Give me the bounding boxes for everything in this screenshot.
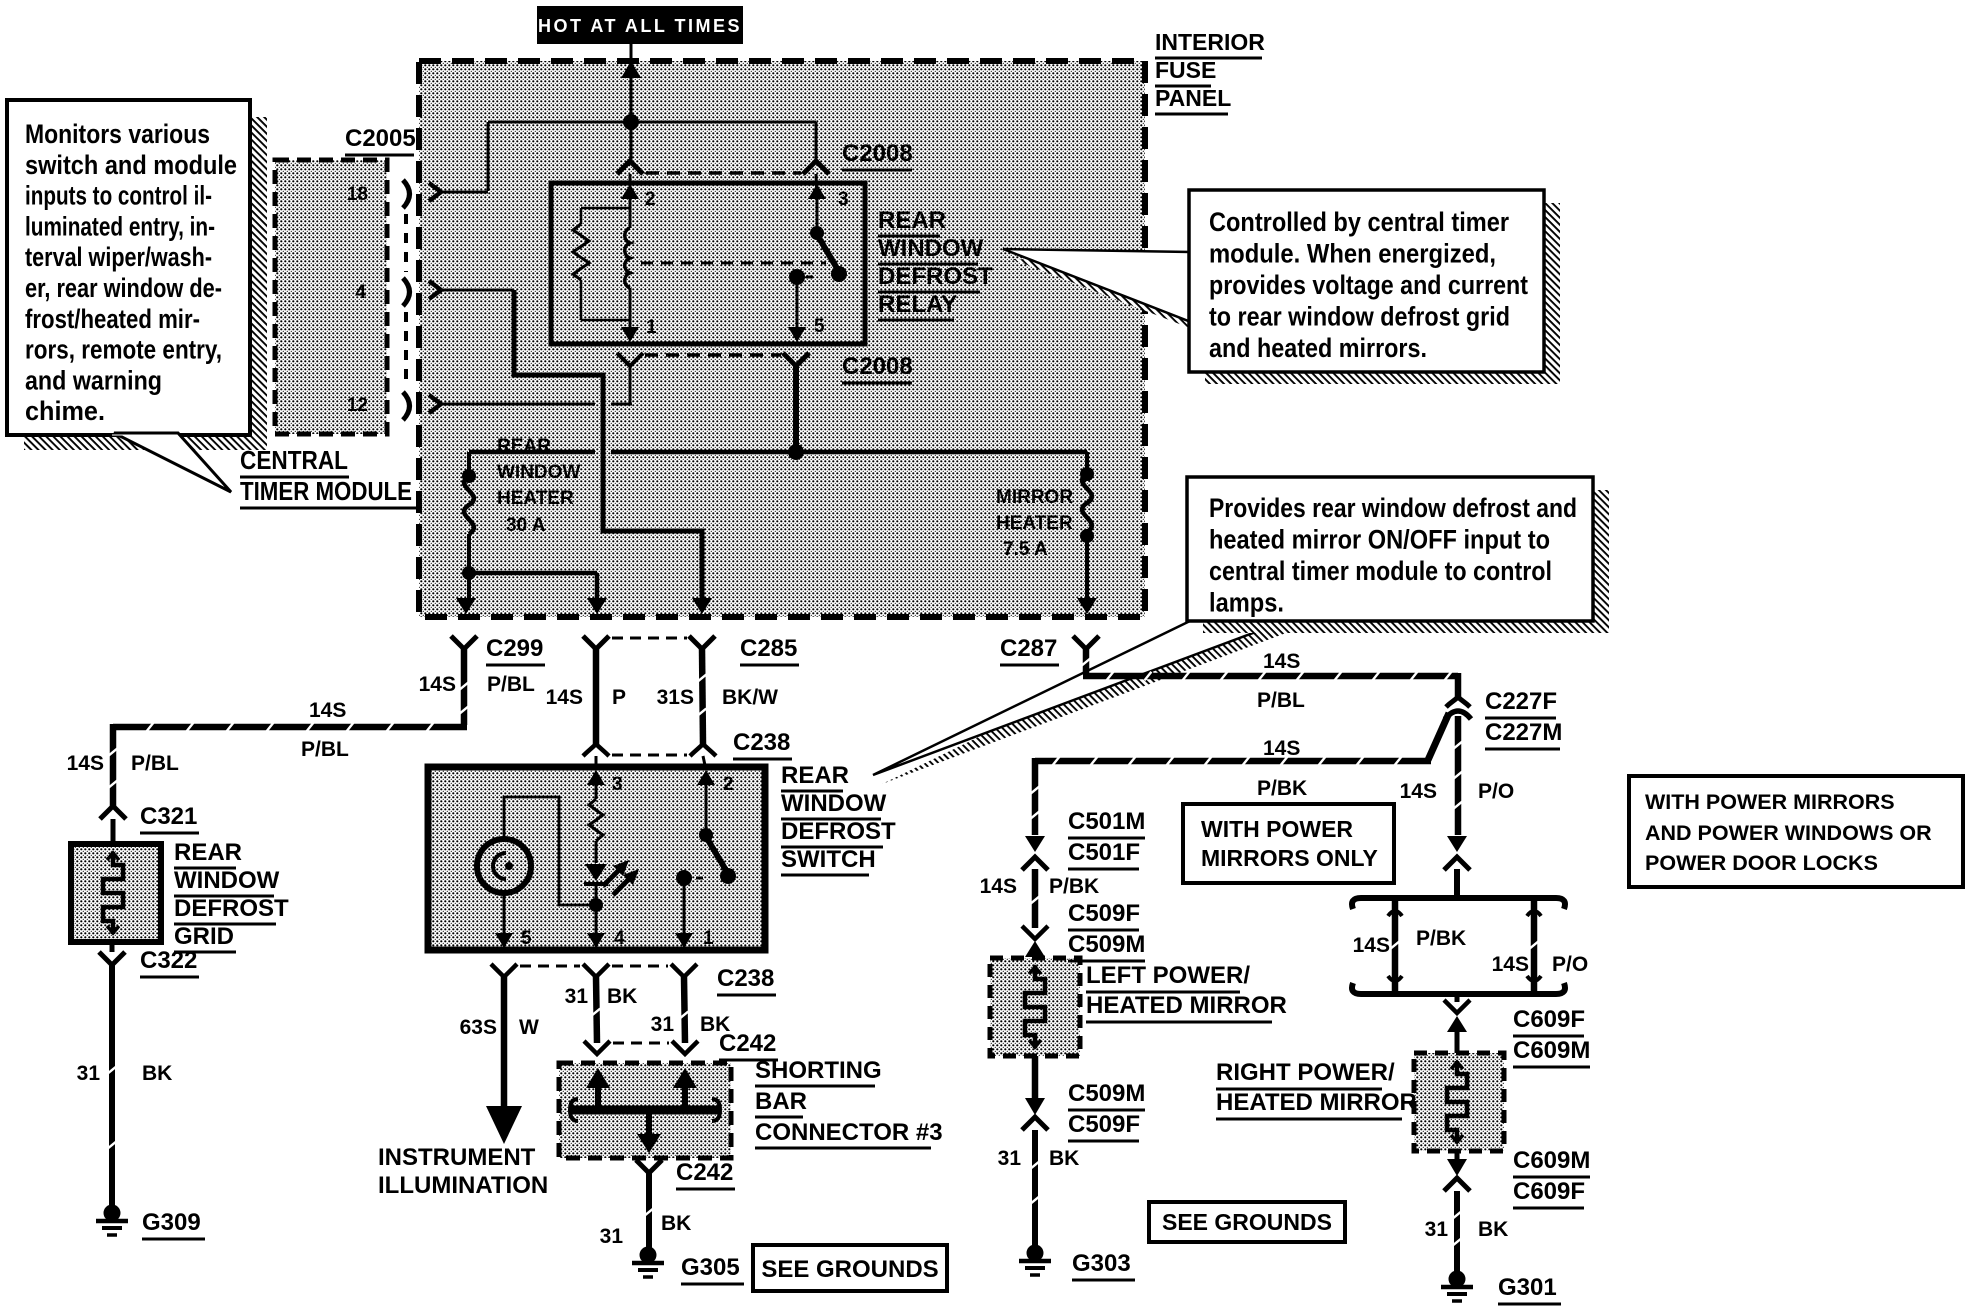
fuse - mirror heater 7.5A bbox=[1085, 452, 1089, 472]
svg-text:1: 1 bbox=[703, 928, 714, 949]
connector C285 left half (14S P) bbox=[583, 636, 609, 649]
svg-text:chime.: chime. bbox=[25, 396, 105, 426]
callout - left note shadow bbox=[250, 117, 267, 450]
arrow - 31S wire exits fuse panel to C285 bbox=[692, 598, 712, 614]
relay - rear window defrost relay box bbox=[551, 183, 865, 344]
svg-text:C238: C238 bbox=[733, 729, 790, 756]
svg-text:2: 2 bbox=[645, 189, 656, 210]
connector C509F / C509M bbox=[1022, 926, 1048, 939]
svg-text:REAR: REAR bbox=[878, 207, 946, 234]
svg-text:TIMER MODULE: TIMER MODULE bbox=[240, 476, 412, 506]
svg-text:DEFROST: DEFROST bbox=[878, 263, 993, 290]
svg-text:BK: BK bbox=[142, 1062, 172, 1085]
svg-text:C299: C299 bbox=[486, 635, 543, 662]
svg-text:P/BK: P/BK bbox=[1416, 927, 1466, 950]
svg-text:INTERIOR: INTERIOR bbox=[1155, 29, 1265, 55]
splice bracket top bar bbox=[1352, 898, 1565, 909]
wire - 31 BK shorting bar to ground G305 bbox=[646, 1173, 652, 1248]
svg-text:C509F: C509F bbox=[1068, 900, 1140, 927]
svg-text:MIRRORS ONLY: MIRRORS ONLY bbox=[1201, 845, 1378, 871]
switch pin 3 arrow bbox=[587, 770, 605, 785]
node - switch lamp junction bbox=[589, 898, 603, 912]
svg-text:5: 5 bbox=[521, 928, 532, 949]
svg-text:WITH POWER MIRRORS: WITH POWER MIRRORS bbox=[1645, 790, 1895, 814]
svg-text:P/O: P/O bbox=[1478, 780, 1514, 803]
wire - 31 BK left mirror to ground G303 bbox=[1032, 1130, 1038, 1246]
svg-text:14S: 14S bbox=[309, 699, 346, 722]
wire - C238 to switch pin 3 bbox=[595, 756, 598, 770]
svg-text:C287: C287 bbox=[1000, 635, 1057, 662]
connector C2005 pin 18 bracket bbox=[403, 180, 410, 208]
svg-text:14S: 14S bbox=[1400, 780, 1437, 803]
callout B box bbox=[1187, 477, 1593, 621]
svg-text:switch and module: switch and module bbox=[25, 150, 237, 180]
wire - C601 to splice bracket bbox=[1454, 869, 1460, 899]
svg-text:provides voltage and current: provides voltage and current bbox=[1209, 270, 1528, 300]
svg-text:31: 31 bbox=[1425, 1218, 1449, 1241]
svg-text:14S: 14S bbox=[1353, 934, 1390, 957]
wire - B+ distribution to relay pin 3 branch bbox=[631, 121, 816, 124]
arrow - instrument illumination feed (large) bbox=[486, 1106, 522, 1144]
svg-text:1: 1 bbox=[646, 317, 657, 338]
arrow - rear window heater fuse output exits panel at C299 bbox=[456, 598, 476, 614]
connector C322 bbox=[99, 952, 125, 965]
wire - 14S P/BL from C299 to C321 (slashed power wire) bbox=[461, 649, 468, 725]
note box - SEE GROUNDS (left) bbox=[753, 1245, 947, 1291]
relay coil (pin 2 to pin 1) bbox=[629, 199, 632, 228]
wire - 31 BK switch pin 1 to C242 bbox=[684, 977, 685, 1043]
wire - 14S P from C285 to C238 bbox=[593, 649, 600, 744]
svg-text:G301: G301 bbox=[1498, 1274, 1557, 1301]
svg-text:P/O: P/O bbox=[1552, 953, 1588, 976]
svg-text:central timer module to contro: central timer module to control bbox=[1209, 556, 1552, 586]
svg-text:31: 31 bbox=[998, 1147, 1022, 1170]
svg-text:to rear window defrost grid: to rear window defrost grid bbox=[1209, 302, 1510, 332]
relay mechanical linkage dashed line bbox=[641, 262, 826, 265]
svg-text:Controlled by central timer: Controlled by central timer bbox=[1209, 207, 1509, 237]
svg-text:HEATED MIRROR: HEATED MIRROR bbox=[1216, 1089, 1417, 1116]
connector C285 right half (31S BK/W) bbox=[689, 636, 715, 649]
svg-text:2: 2 bbox=[723, 774, 734, 795]
svg-text:P/BL: P/BL bbox=[487, 673, 535, 696]
switch indicator LED diode bbox=[585, 864, 607, 881]
svg-text:63S: 63S bbox=[460, 1016, 497, 1039]
svg-text:LEFT POWER/: LEFT POWER/ bbox=[1086, 962, 1250, 989]
connector C2005 pin 4 bracket bbox=[403, 278, 410, 306]
connector C242 upper dashed link bbox=[613, 1042, 669, 1045]
svg-text:Provides rear window defrost a: Provides rear window defrost and bbox=[1209, 493, 1577, 523]
component - rear window defrost switch box bbox=[428, 767, 765, 950]
svg-text:C609M: C609M bbox=[1513, 1147, 1590, 1174]
callout B pointer wedge bbox=[873, 621, 1285, 775]
component - right power/heated mirror box bbox=[1414, 1053, 1504, 1151]
svg-text:12: 12 bbox=[347, 395, 368, 416]
svg-text:WINDOW: WINDOW bbox=[781, 790, 887, 817]
wire - 14S P/O from C227 to C601 (slashed) bbox=[1455, 716, 1462, 835]
svg-text:C238: C238 bbox=[717, 965, 774, 992]
svg-text:module. When energized,: module. When energized, bbox=[1209, 239, 1496, 269]
svg-text:C609F: C609F bbox=[1513, 1178, 1585, 1205]
callout B pointer shadow bbox=[882, 630, 1294, 784]
relay switch arm bbox=[819, 238, 838, 270]
svg-text:4: 4 bbox=[614, 928, 625, 949]
svg-text:rors, remote entry,: rors, remote entry, bbox=[25, 335, 222, 365]
inline connector - 14S P/BK (bracket left leg) bbox=[1392, 898, 1399, 994]
connector C227F / C227M inline pair bbox=[1446, 697, 1470, 707]
svg-text:14S: 14S bbox=[546, 686, 583, 709]
connector C2008 lower right half (relay pin 5 output) bbox=[783, 353, 809, 366]
svg-text:31: 31 bbox=[77, 1062, 101, 1085]
shorting bar output arrow bbox=[646, 1110, 652, 1136]
component - shorting bar connector #3 box bbox=[559, 1063, 731, 1158]
connector C285 dashed link bbox=[612, 637, 687, 640]
svg-text:HEATED MIRROR: HEATED MIRROR bbox=[1086, 992, 1287, 1019]
arrow - 14S P wire exits panel to C285 bbox=[587, 598, 607, 614]
svg-text:C227F: C227F bbox=[1485, 688, 1557, 715]
ground G309 bbox=[104, 1205, 121, 1222]
ground G301 bbox=[1449, 1271, 1466, 1288]
callout - left note box bbox=[7, 100, 250, 435]
svg-text:GRID: GRID bbox=[174, 923, 234, 950]
relay pin 3 arrow bbox=[816, 174, 817, 199]
svg-text:REAR: REAR bbox=[174, 839, 242, 866]
svg-text:PANEL: PANEL bbox=[1155, 85, 1231, 111]
svg-text:C509M: C509M bbox=[1068, 931, 1145, 958]
connector C2005 body dashes bbox=[404, 214, 408, 272]
svg-text:and heated mirrors.: and heated mirrors. bbox=[1209, 333, 1427, 363]
wire - C2008 lower connector dashed link bbox=[645, 353, 781, 357]
svg-text:P/BK: P/BK bbox=[1257, 777, 1307, 800]
arrow - mirror heater fuse output exits panel at C287 bbox=[1077, 598, 1097, 614]
svg-text:BK: BK bbox=[1478, 1218, 1508, 1241]
wire - CTM pin 4 to defrost switch pin 2 (31S BK/W) bbox=[440, 289, 514, 292]
svg-text:3: 3 bbox=[612, 774, 623, 795]
relay pin 5 wire and arrow bbox=[796, 283, 799, 330]
right mirror heating element bbox=[1447, 1061, 1467, 1143]
svg-text:luminated entry, in-: luminated entry, in- bbox=[25, 211, 215, 241]
wire - relay output C2008 to feed junction bbox=[793, 366, 799, 452]
svg-text:SEE GROUNDS: SEE GROUNDS bbox=[761, 1256, 938, 1283]
ground G305 bbox=[640, 1247, 657, 1264]
connector C2008 upper right half (to relay pin 3) bbox=[803, 161, 829, 174]
svg-text:WINDOW: WINDOW bbox=[497, 462, 580, 483]
wire - 31 BK switch pin 4 to C242 bbox=[596, 977, 597, 1043]
wire - fuse feed rail to mirror heater fuse bbox=[796, 450, 1087, 455]
relay pin 1 arrow bbox=[621, 327, 639, 342]
svg-text:C509F: C509F bbox=[1068, 1111, 1140, 1138]
switch indicator resistor bbox=[589, 799, 603, 841]
connector C2005 pin 18 harness arrow bbox=[429, 183, 441, 201]
svg-text:MIRROR: MIRROR bbox=[996, 487, 1073, 508]
svg-text:3: 3 bbox=[838, 189, 849, 210]
component - rear window defrost grid box bbox=[71, 844, 161, 942]
wire - 31 BK right mirror to ground G301 bbox=[1454, 1191, 1460, 1272]
svg-text:14S: 14S bbox=[980, 875, 1017, 898]
connector C299 bbox=[451, 636, 477, 649]
callout A box bbox=[1189, 190, 1544, 372]
svg-text:31: 31 bbox=[600, 1225, 624, 1248]
svg-text:WITH POWER: WITH POWER bbox=[1201, 816, 1353, 842]
svg-text:REAR: REAR bbox=[781, 762, 849, 789]
svg-text:14S: 14S bbox=[67, 752, 104, 775]
component - left power/heated mirror box bbox=[990, 958, 1080, 1056]
connector C609F / C609M bbox=[1455, 994, 1460, 1002]
arrow - battery feed entering fuse panel bbox=[621, 61, 641, 78]
svg-text:G305: G305 bbox=[681, 1254, 740, 1281]
svg-text:P: P bbox=[612, 686, 626, 709]
wire - 14S P/BK C501 to C509 (slashed) bbox=[1032, 869, 1039, 928]
svg-text:31: 31 bbox=[565, 985, 589, 1008]
wire - fuse feed rail to rear window heater fuse (break at crossing) bbox=[469, 450, 595, 455]
switch pin 2 fixed contact bbox=[705, 799, 708, 832]
splice bracket bottom bar bbox=[1352, 983, 1565, 994]
callout B shadow bbox=[1593, 490, 1609, 633]
switch illumination lamp bbox=[477, 839, 531, 893]
svg-text:C501F: C501F bbox=[1068, 839, 1140, 866]
svg-text:BK: BK bbox=[661, 1212, 691, 1235]
connector C321 bbox=[100, 806, 126, 819]
svg-text:HEATER: HEATER bbox=[497, 488, 574, 509]
svg-text:31: 31 bbox=[651, 1013, 675, 1036]
svg-text:C242: C242 bbox=[676, 1159, 733, 1186]
svg-text:SEE GROUNDS: SEE GROUNDS bbox=[1162, 1209, 1332, 1235]
svg-text:WINDOW: WINDOW bbox=[174, 867, 280, 894]
svg-text:C609F: C609F bbox=[1513, 1006, 1585, 1033]
svg-text:HEATER: HEATER bbox=[996, 513, 1073, 534]
central timer module (dashed box, halftone fill) bbox=[275, 160, 387, 434]
connector C2008 lower left half (relay pin 1 to CTM pin 12) bbox=[617, 353, 643, 366]
svg-text:C2008: C2008 bbox=[842, 353, 913, 380]
svg-text:REAR: REAR bbox=[497, 436, 551, 457]
svg-text:14S: 14S bbox=[1263, 650, 1300, 673]
svg-text:C509M: C509M bbox=[1068, 1080, 1145, 1107]
interior fuse panel (dashed box, halftone fill) bbox=[419, 61, 1145, 617]
svg-text:G303: G303 bbox=[1072, 1250, 1131, 1277]
svg-text:ILLUMINATION: ILLUMINATION bbox=[378, 1172, 548, 1199]
wire - C2008 upper connector dashed link bbox=[646, 171, 801, 175]
callout - left note pointer tail bbox=[114, 433, 231, 492]
switch pin 2 arrow bbox=[697, 770, 715, 785]
svg-text:frost/heated mir-: frost/heated mir- bbox=[25, 304, 200, 334]
shorting bar bbox=[572, 1106, 718, 1115]
svg-text:SHORTING: SHORTING bbox=[755, 1057, 882, 1084]
svg-text:C2008: C2008 bbox=[842, 140, 913, 167]
wire - C238 to switch pin 2 bbox=[703, 756, 706, 770]
svg-text:P/BK: P/BK bbox=[1049, 875, 1099, 898]
svg-text:C321: C321 bbox=[140, 803, 197, 830]
connector C238 lower halves bbox=[491, 964, 517, 977]
svg-text:W: W bbox=[519, 1016, 539, 1039]
wire - B+ branch to central timer module pin 18 bbox=[488, 121, 631, 124]
switch pin 4 wire and arrow bbox=[595, 905, 598, 934]
svg-text:P/BL: P/BL bbox=[1257, 689, 1305, 712]
svg-text:C227M: C227M bbox=[1485, 719, 1562, 746]
svg-text:18: 18 bbox=[347, 184, 368, 205]
svg-text:RELAY: RELAY bbox=[878, 291, 957, 318]
svg-text:HOT AT ALL TIMES: HOT AT ALL TIMES bbox=[538, 16, 742, 36]
svg-text:5: 5 bbox=[814, 316, 825, 337]
switch indicator LED arrows bbox=[603, 867, 622, 886]
connector C238 upper left half bbox=[583, 744, 609, 756]
svg-text:BK: BK bbox=[1049, 1147, 1079, 1170]
connector C287 bbox=[1073, 636, 1099, 649]
svg-text:and warning: and warning bbox=[25, 365, 162, 395]
wire - 63S W to instrument illumination bbox=[501, 977, 508, 1108]
svg-text:C322: C322 bbox=[140, 947, 197, 974]
svg-text:terval wiper/wash-: terval wiper/wash- bbox=[25, 242, 212, 272]
rear window defrost grid heating element bbox=[103, 852, 123, 934]
fuse - rear window heater 30A bbox=[467, 452, 471, 474]
svg-text:CENTRAL: CENTRAL bbox=[240, 445, 348, 475]
relay pin 2 arrow bbox=[629, 174, 632, 199]
relay pin 5 movable contact bbox=[789, 269, 805, 285]
wire - 31 BK from C322 to ground G309 bbox=[109, 965, 115, 1206]
connector C242 lower half bbox=[636, 1160, 662, 1173]
svg-text:CONNECTOR #3: CONNECTOR #3 bbox=[755, 1119, 943, 1146]
note box - WITH POWER MIRRORS ONLY bbox=[1183, 804, 1394, 883]
wire - 31S BK/W from C285 to C238 (slashed) bbox=[702, 649, 703, 744]
ground G303 bbox=[1027, 1245, 1044, 1262]
wire - fuse output branch to defrost switch feed (14S P) bbox=[469, 571, 597, 576]
svg-text:14S: 14S bbox=[1492, 953, 1529, 976]
connector C2005 pin 4 harness arrow bbox=[429, 281, 441, 299]
svg-text:FUSE: FUSE bbox=[1155, 57, 1216, 83]
svg-text:POWER DOOR LOCKS: POWER DOOR LOCKS bbox=[1645, 851, 1878, 875]
switch arm bbox=[708, 840, 727, 872]
svg-text:C501M: C501M bbox=[1068, 808, 1145, 835]
svg-text:30 A: 30 A bbox=[506, 515, 546, 536]
connector C238 upper dashed link bbox=[612, 754, 687, 757]
svg-text:lamps.: lamps. bbox=[1209, 588, 1284, 618]
svg-text:inputs to control il-: inputs to control il- bbox=[25, 181, 212, 211]
switch pin 1 wire and arrow bbox=[683, 884, 686, 934]
svg-text:RIGHT POWER/: RIGHT POWER/ bbox=[1216, 1059, 1395, 1086]
left mirror heating element bbox=[1025, 966, 1045, 1048]
connector C509M / C509F (below left mirror) bbox=[1032, 1056, 1039, 1098]
connector C2005 pin 12 harness arrow bbox=[429, 395, 441, 413]
wire - CTM pin 12 to relay pin 1 (coil ground) bbox=[440, 403, 595, 406]
note box - HOT AT ALL TIMES bbox=[537, 6, 743, 44]
svg-text:C285: C285 bbox=[740, 635, 797, 662]
connector C609M / C609F (below right mirror) bbox=[1455, 1151, 1460, 1159]
relay pin 3 fixed contact bbox=[816, 199, 819, 230]
connector C501M / C501F bbox=[1025, 836, 1045, 852]
svg-text:er, rear window de-: er, rear window de- bbox=[25, 273, 222, 303]
wire - 14S P/BK branch from C227 (slashed) bbox=[1428, 713, 1449, 760]
shorting bar pin arrows bbox=[595, 1086, 601, 1110]
svg-text:DEFROST: DEFROST bbox=[174, 895, 289, 922]
svg-text:P/BL: P/BL bbox=[131, 752, 179, 775]
svg-text:P/BL: P/BL bbox=[301, 738, 349, 761]
svg-text:G309: G309 bbox=[142, 1209, 201, 1236]
connector C242 upper halves bbox=[584, 1041, 610, 1054]
wire - junction to illumination lamp bbox=[504, 797, 596, 905]
svg-text:BAR: BAR bbox=[755, 1088, 807, 1115]
svg-text:BK/W: BK/W bbox=[722, 686, 778, 709]
svg-text:INSTRUMENT: INSTRUMENT bbox=[378, 1144, 536, 1171]
svg-text:Monitors various: Monitors various bbox=[25, 119, 210, 149]
callout A shadow bbox=[1544, 203, 1560, 384]
svg-text:7.5 A: 7.5 A bbox=[1003, 539, 1048, 560]
connector C2005 pin 12 bracket bbox=[403, 392, 410, 420]
svg-text:31S: 31S bbox=[657, 686, 694, 709]
switch pin 5 wire and arrow bbox=[503, 893, 506, 934]
note box - SEE GROUNDS (right) bbox=[1149, 1202, 1345, 1242]
svg-text:14S: 14S bbox=[1263, 737, 1300, 760]
svg-text:DEFROST: DEFROST bbox=[781, 818, 896, 845]
connector C601M / C601F bbox=[1447, 836, 1467, 852]
note box - WITH POWER MIRRORS AND POWER WINDOWS OR POWER DOOR LOCKS bbox=[1629, 776, 1963, 887]
svg-text:C242: C242 bbox=[719, 1030, 776, 1057]
svg-text:4: 4 bbox=[355, 282, 366, 303]
node - B+ junction bbox=[623, 114, 639, 130]
svg-text:SWITCH: SWITCH bbox=[781, 846, 876, 873]
wire - 14S P/BL from C287 to C227 (slashed) bbox=[1083, 649, 1090, 673]
inline connector - 14S P/O (bracket right leg) bbox=[1531, 898, 1538, 994]
connector C238 lower dashed links bbox=[520, 965, 580, 968]
svg-text:WINDOW: WINDOW bbox=[878, 235, 984, 262]
connector C238 upper right half bbox=[690, 744, 716, 756]
svg-text:heated mirror ON/OFF input to: heated mirror ON/OFF input to bbox=[1209, 525, 1550, 555]
switch pin 1 movable contact bbox=[676, 870, 692, 886]
node - relay output junction on fuse feed rail bbox=[788, 444, 804, 460]
svg-text:C609M: C609M bbox=[1513, 1037, 1590, 1064]
svg-text:AND POWER WINDOWS OR: AND POWER WINDOWS OR bbox=[1645, 821, 1932, 845]
wire - battery feed from HOT AT ALL TIMES down into fuse panel bbox=[630, 44, 633, 161]
svg-text:14S: 14S bbox=[419, 673, 456, 696]
connector C2008 upper left half (to relay pin 2) bbox=[617, 161, 643, 174]
callout A pointer shadow bbox=[1012, 259, 1200, 332]
callout A pointer wedge bbox=[1003, 249, 1191, 322]
svg-text:C2005: C2005 bbox=[345, 125, 416, 152]
svg-text:BK: BK bbox=[607, 985, 637, 1008]
relay resistor (parallel with coil) bbox=[581, 207, 630, 210]
